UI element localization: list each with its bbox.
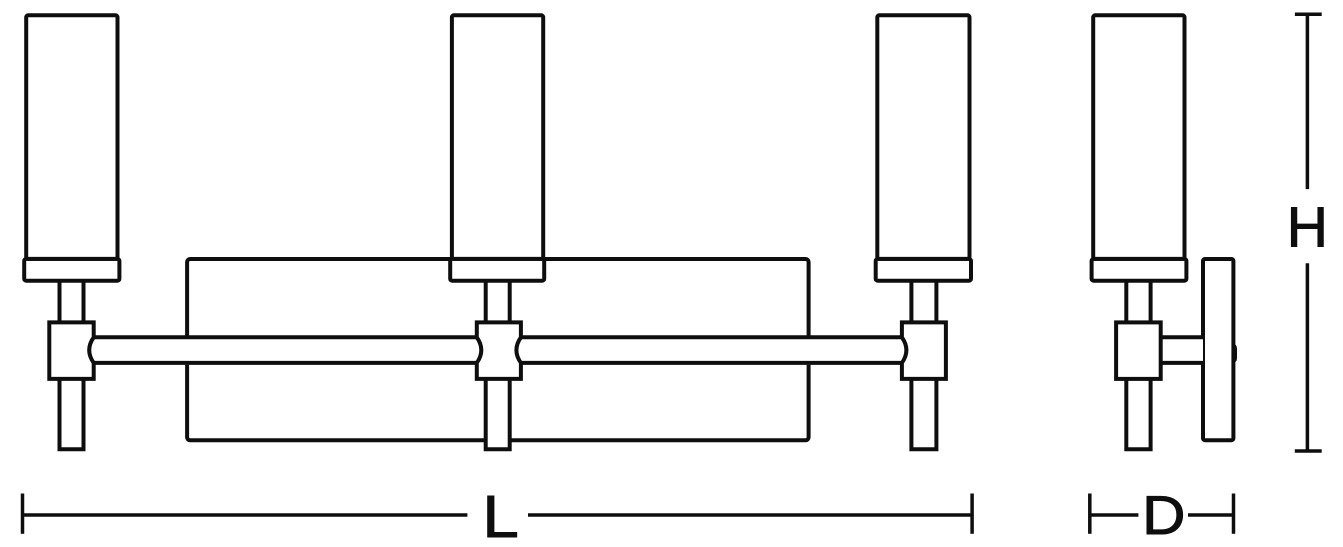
upper stem middle light	[486, 281, 510, 323]
collar left light	[24, 259, 119, 281]
side view: arm top edge	[1161, 335, 1203, 339]
collar middle light	[450, 259, 544, 281]
dimension L: right line segment	[528, 513, 972, 517]
lower stem left light	[60, 379, 84, 449]
side view: arm fill	[1161, 336, 1203, 365]
collar right light	[876, 259, 971, 281]
backplate (front view mounting plate)	[187, 259, 809, 440]
dimension label D	[1142, 485, 1185, 546]
dimension D: left line segment	[1090, 513, 1139, 517]
dimension H: upper line segment	[1306, 14, 1310, 189]
dimension L: right tick	[970, 494, 974, 534]
dimension H: top tick	[1295, 13, 1322, 17]
side view: arm bottom edge	[1161, 361, 1203, 365]
crossbar top edge	[94, 335, 902, 339]
dimension label L	[482, 485, 518, 547]
side view: upper stem	[1126, 281, 1150, 323]
side view: glass shade	[1093, 15, 1184, 259]
lower stem middle light	[486, 379, 510, 449]
side view: collar	[1092, 259, 1187, 281]
junction block middle light	[477, 322, 521, 379]
dimension L: left tick	[21, 494, 25, 534]
junction block right light	[902, 322, 946, 379]
dimension D: right line segment	[1188, 513, 1234, 517]
glass shade middle light	[452, 15, 543, 259]
dimension L: left line segment	[23, 513, 468, 517]
svg-text:H: H	[1287, 196, 1328, 260]
side view: junction block	[1116, 322, 1161, 379]
side view: lower stem	[1126, 379, 1150, 449]
svg-text:L: L	[482, 485, 518, 547]
glass shade right light	[877, 15, 969, 259]
svg-text:D: D	[1142, 485, 1185, 546]
dimension H: lower line segment	[1306, 263, 1310, 451]
junction block left light	[49, 322, 93, 379]
crossbar fill	[72, 336, 924, 365]
dimension D: right tick	[1232, 494, 1236, 534]
side view: wall plate screw bump	[1227, 345, 1236, 361]
crossbar bottom edge	[94, 361, 902, 365]
upper stem left light	[60, 281, 84, 323]
dimension D: left tick	[1088, 494, 1092, 534]
glass shade left light	[26, 15, 117, 259]
lower stem right light	[911, 379, 936, 449]
upper stem right light	[911, 281, 936, 323]
dimension H: bottom tick	[1295, 449, 1322, 453]
side view: wall plate	[1203, 259, 1233, 440]
